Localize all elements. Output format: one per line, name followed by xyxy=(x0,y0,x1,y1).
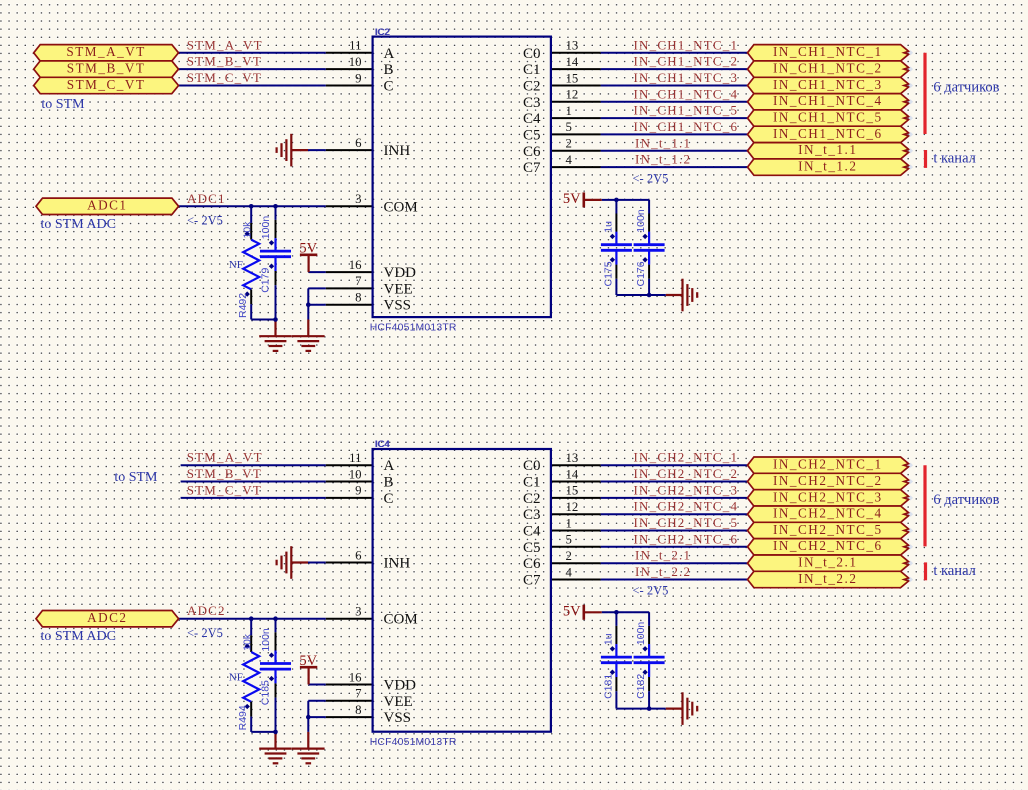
svg-text:A: A xyxy=(384,458,395,474)
svg-text:<- 2V5: <- 2V5 xyxy=(187,214,223,228)
svg-text:13: 13 xyxy=(566,451,579,465)
svg-text:C6: C6 xyxy=(523,556,541,572)
svg-text:IN_CH1_NTC_2: IN_CH1_NTC_2 xyxy=(634,54,739,69)
svg-text:100n: 100n xyxy=(635,622,647,646)
svg-text:IN_t_1.2: IN_t_1.2 xyxy=(798,159,857,174)
svg-text:5: 5 xyxy=(566,120,572,134)
svg-text:to STM: to STM xyxy=(41,97,85,112)
svg-text:C4: C4 xyxy=(523,111,541,127)
svg-text:IN_CH1_NTC_1: IN_CH1_NTC_1 xyxy=(634,37,739,52)
svg-text:C176: C176 xyxy=(635,261,647,286)
svg-text:IN_CH2_NTC_5: IN_CH2_NTC_5 xyxy=(773,522,883,537)
svg-text:IN_CH2_NTC_1: IN_CH2_NTC_1 xyxy=(634,450,739,465)
svg-text:INH: INH xyxy=(384,556,411,572)
svg-text:to STM ADC: to STM ADC xyxy=(41,217,116,232)
svg-text:C5: C5 xyxy=(523,127,541,143)
svg-text:B: B xyxy=(384,62,394,78)
svg-text:<- 2V5: <- 2V5 xyxy=(633,584,669,598)
svg-text:8: 8 xyxy=(355,703,361,717)
svg-text:IN_t_1.1: IN_t_1.1 xyxy=(798,142,857,157)
svg-text:9: 9 xyxy=(355,71,361,85)
svg-text:to STM ADC: to STM ADC xyxy=(41,629,116,644)
svg-text:STM_C_VT: STM_C_VT xyxy=(187,70,262,85)
svg-text:C0: C0 xyxy=(523,46,541,62)
svg-text:100n: 100n xyxy=(635,209,647,233)
svg-text:IN_CH1_NTC_4: IN_CH1_NTC_4 xyxy=(773,93,883,108)
svg-text:3: 3 xyxy=(355,192,361,206)
svg-text:10k: 10k xyxy=(241,633,253,651)
svg-text:C2: C2 xyxy=(523,79,541,95)
svg-text:6 датчиков: 6 датчиков xyxy=(933,492,999,508)
svg-text:C6: C6 xyxy=(523,144,541,160)
svg-text:10k: 10k xyxy=(241,221,253,239)
svg-text:IN_CH1_NTC_5: IN_CH1_NTC_5 xyxy=(773,110,883,125)
svg-text:14: 14 xyxy=(566,55,579,69)
svg-text:ADC2: ADC2 xyxy=(187,603,226,618)
svg-text:COM: COM xyxy=(384,199,418,215)
svg-text:4: 4 xyxy=(566,153,573,167)
svg-text:IN_t_2.2: IN_t_2.2 xyxy=(635,564,691,579)
svg-text:C181: C181 xyxy=(602,674,614,699)
svg-text:7: 7 xyxy=(355,687,362,701)
svg-text:<- 2V5: <- 2V5 xyxy=(187,626,223,640)
svg-text:IN_t_1.2: IN_t_1.2 xyxy=(635,152,691,167)
svg-text:IN_CH2_NTC_1: IN_CH2_NTC_1 xyxy=(773,457,883,472)
svg-text:t канал: t канал xyxy=(933,563,975,579)
svg-text:NF: NF xyxy=(229,259,243,271)
svg-text:t канал: t канал xyxy=(933,151,975,167)
svg-text:C179: C179 xyxy=(260,268,272,293)
svg-text:10: 10 xyxy=(349,467,362,481)
svg-text:IN_CH1_NTC_1: IN_CH1_NTC_1 xyxy=(773,44,883,59)
svg-text:IC4: IC4 xyxy=(375,439,390,450)
svg-text:IN_CH2_NTC_4: IN_CH2_NTC_4 xyxy=(773,506,883,521)
svg-text:VEE: VEE xyxy=(384,694,413,710)
svg-text:100n: 100n xyxy=(260,628,272,652)
svg-text:C1: C1 xyxy=(523,62,541,78)
svg-text:ADC1: ADC1 xyxy=(87,198,127,213)
svg-text:IN_CH1_NTC_6: IN_CH1_NTC_6 xyxy=(634,119,739,134)
svg-text:6: 6 xyxy=(355,136,362,150)
svg-text:R492: R492 xyxy=(237,293,249,318)
svg-text:ADC1: ADC1 xyxy=(187,191,226,206)
svg-text:IN_CH2_NTC_2: IN_CH2_NTC_2 xyxy=(773,473,883,488)
svg-text:1u: 1u xyxy=(602,633,614,645)
svg-text:IC2: IC2 xyxy=(375,27,390,38)
svg-text:1: 1 xyxy=(566,516,572,530)
svg-text:STM_B_VT: STM_B_VT xyxy=(187,466,262,481)
svg-text:COM: COM xyxy=(384,612,418,628)
svg-text:14: 14 xyxy=(566,467,579,481)
svg-text:C3: C3 xyxy=(523,95,541,111)
svg-text:IN_CH1_NTC_2: IN_CH1_NTC_2 xyxy=(773,61,883,76)
svg-text:6: 6 xyxy=(355,548,362,562)
svg-text:HCF4051M013TR: HCF4051M013TR xyxy=(370,737,457,748)
svg-text:6 датчиков: 6 датчиков xyxy=(933,79,999,95)
svg-text:C7: C7 xyxy=(523,160,541,176)
svg-text:C0: C0 xyxy=(523,458,541,474)
svg-text:R494: R494 xyxy=(237,705,249,730)
svg-text:15: 15 xyxy=(566,71,579,85)
svg-text:IN_CH1_NTC_3: IN_CH1_NTC_3 xyxy=(773,77,883,92)
svg-text:C5: C5 xyxy=(523,540,541,556)
svg-text:IN_CH2_NTC_3: IN_CH2_NTC_3 xyxy=(773,489,883,504)
svg-text:INH: INH xyxy=(384,143,411,159)
svg-text:5V: 5V xyxy=(563,191,581,207)
svg-text:STM_B_VT: STM_B_VT xyxy=(187,54,262,69)
svg-text:4: 4 xyxy=(566,565,573,579)
svg-text:9: 9 xyxy=(355,484,361,498)
svg-text:C182: C182 xyxy=(635,674,647,699)
svg-text:1u: 1u xyxy=(602,221,614,233)
svg-text:IN_t_2.1: IN_t_2.1 xyxy=(635,548,691,563)
svg-text:VEE: VEE xyxy=(384,281,413,297)
svg-text:16: 16 xyxy=(349,258,362,272)
svg-text:IN_CH2_NTC_2: IN_CH2_NTC_2 xyxy=(634,466,739,481)
svg-text:ADC2: ADC2 xyxy=(87,610,127,625)
svg-text:100n: 100n xyxy=(260,216,272,240)
svg-text:5V: 5V xyxy=(563,604,581,620)
svg-text:1: 1 xyxy=(566,104,572,118)
svg-text:VSS: VSS xyxy=(384,298,412,314)
svg-text:to STM: to STM xyxy=(114,470,158,485)
svg-text:STM_B_VT: STM_B_VT xyxy=(67,61,146,76)
svg-text:IN_CH1_NTC_4: IN_CH1_NTC_4 xyxy=(634,86,739,101)
svg-text:IN_CH1_NTC_5: IN_CH1_NTC_5 xyxy=(634,103,739,118)
svg-text:C2: C2 xyxy=(523,491,541,507)
svg-text:15: 15 xyxy=(566,484,579,498)
svg-text:C4: C4 xyxy=(523,524,541,540)
svg-text:IN_t_2.2: IN_t_2.2 xyxy=(798,571,857,586)
svg-text:VDD: VDD xyxy=(384,265,417,281)
svg-text:5V: 5V xyxy=(299,653,317,669)
svg-text:STM_A_VT: STM_A_VT xyxy=(66,44,145,59)
svg-text:IN_CH2_NTC_5: IN_CH2_NTC_5 xyxy=(634,515,739,530)
svg-text:7: 7 xyxy=(355,274,362,288)
svg-text:8: 8 xyxy=(355,291,361,305)
svg-text:STM_C_VT: STM_C_VT xyxy=(67,77,146,92)
svg-text:C175: C175 xyxy=(602,261,614,286)
svg-text:B: B xyxy=(384,475,394,491)
svg-text:13: 13 xyxy=(566,39,579,53)
svg-text:C185: C185 xyxy=(260,680,272,705)
svg-text:A: A xyxy=(384,46,395,62)
svg-text:C1: C1 xyxy=(523,475,541,491)
svg-text:IN_CH2_NTC_6: IN_CH2_NTC_6 xyxy=(634,531,739,546)
svg-text:5: 5 xyxy=(566,533,572,547)
svg-text:10: 10 xyxy=(349,55,362,69)
svg-text:2: 2 xyxy=(566,137,572,151)
svg-text:IN_CH2_NTC_3: IN_CH2_NTC_3 xyxy=(634,482,739,497)
svg-text:STM_C_VT: STM_C_VT xyxy=(187,482,262,497)
svg-text:VSS: VSS xyxy=(384,710,412,726)
svg-text:<- 2V5: <- 2V5 xyxy=(633,171,669,185)
svg-text:IN_CH2_NTC_6: IN_CH2_NTC_6 xyxy=(773,538,883,553)
svg-text:3: 3 xyxy=(355,605,361,619)
svg-text:IN_CH1_NTC_6: IN_CH1_NTC_6 xyxy=(773,126,883,141)
svg-text:5V: 5V xyxy=(299,241,317,257)
svg-text:11: 11 xyxy=(349,39,361,53)
svg-text:IN_CH2_NTC_4: IN_CH2_NTC_4 xyxy=(634,499,739,514)
svg-text:HCF4051M013TR: HCF4051M013TR xyxy=(370,323,457,334)
svg-text:C3: C3 xyxy=(523,507,541,523)
svg-text:IN_t_1.1: IN_t_1.1 xyxy=(635,135,691,150)
svg-text:C: C xyxy=(384,79,394,95)
svg-text:NF: NF xyxy=(229,671,243,683)
svg-text:12: 12 xyxy=(566,88,579,102)
svg-text:2: 2 xyxy=(566,549,572,563)
svg-text:IN_CH1_NTC_3: IN_CH1_NTC_3 xyxy=(634,70,739,85)
svg-text:STM_A_VT: STM_A_VT xyxy=(187,37,263,52)
svg-text:11: 11 xyxy=(349,451,361,465)
svg-text:VDD: VDD xyxy=(384,678,417,694)
svg-text:IN_t_2.1: IN_t_2.1 xyxy=(798,555,857,570)
svg-text:16: 16 xyxy=(349,670,362,684)
svg-text:C: C xyxy=(384,491,394,507)
svg-text:12: 12 xyxy=(566,500,579,514)
svg-text:C7: C7 xyxy=(523,573,541,589)
svg-text:STM_A_VT: STM_A_VT xyxy=(187,450,263,465)
